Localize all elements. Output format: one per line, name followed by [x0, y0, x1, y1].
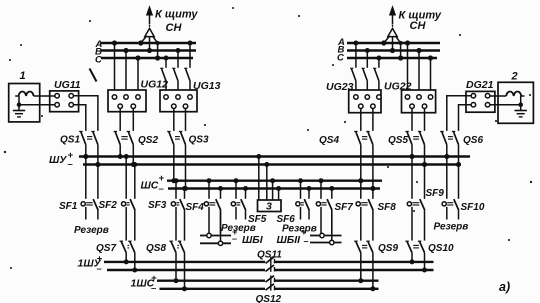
charger unit 3 [258, 200, 282, 213]
label Резерв under SF10 [434, 222, 469, 233]
busbar A (left) [101, 42, 196, 45]
breaker SF5 (reserve) [231, 179, 247, 220]
breaker SF2 [122, 155, 137, 241]
switch QS9 [354, 241, 375, 291]
wire box1 to UG11 (upper) [34, 95, 55, 97]
label 1ШС [131, 273, 158, 294]
label Резерв under SF5 [221, 223, 256, 234]
label ШС [141, 173, 165, 195]
ground in box 2 [515, 96, 527, 117]
svg-text:SF2: SF2 [99, 200, 118, 211]
battery bus ШБII wires [310, 236, 342, 243]
switch QS2 [114, 108, 136, 166]
drop busbar A to UG22 [405, 41, 409, 90]
switch QS5 [405, 108, 426, 166]
switch QS10 [405, 241, 426, 272]
winding inside box 1 [15, 91, 33, 96]
breaker SF3 [171, 179, 186, 241]
bus ШУ minus [83, 163, 460, 165]
svg-text:–: – [304, 236, 309, 246]
label К щиту СН (left) [155, 9, 198, 35]
label UG12 [141, 79, 169, 91]
wire UG21 to box 2 (lower) [490, 104, 521, 106]
svg-text:UG22: UG22 [384, 81, 412, 93]
wire UG21 to QS6 left pole [447, 96, 472, 131]
svg-text:–: – [68, 159, 74, 170]
label Резерв under SF6 [282, 224, 317, 235]
feeder arrow to switchboard SN (left) [139, 7, 160, 60]
label QS3 [189, 135, 209, 146]
label SF1 [59, 201, 78, 212]
feed ШС+ to unit 3 [271, 179, 275, 200]
svg-text:3: 3 [266, 201, 272, 213]
label QS5 [388, 135, 408, 146]
switch QS8 [169, 241, 186, 291]
label QS4 [319, 135, 339, 146]
label SF7 [335, 202, 354, 213]
rectifier UG11 [50, 91, 79, 112]
svg-text:QS11: QS11 [257, 250, 282, 261]
label SF5 [248, 214, 267, 225]
svg-text:QS10: QS10 [428, 243, 454, 254]
sectionalizer QS12 [266, 276, 275, 291]
label QS10 [428, 243, 454, 254]
rectifier UG22 [402, 90, 436, 113]
bus 1ШУ minus (left segment) [107, 269, 265, 271]
disconnect busbar C to UG13 [160, 56, 168, 90]
svg-text:–: – [232, 234, 237, 244]
label К щиту СН (right) [399, 10, 442, 33]
wire UG21 to QS6 right pole [459, 105, 472, 131]
svg-text:SF7: SF7 [335, 202, 354, 213]
svg-text:ШБI: ШБI [242, 234, 264, 246]
label Резерв under SF1 [74, 225, 109, 236]
label SF2 [99, 200, 118, 211]
svg-text:–: – [97, 264, 103, 275]
bus ШС plus [167, 179, 382, 181]
svg-text:1: 1 [20, 70, 26, 82]
svg-text:UG11: UG11 [54, 79, 81, 91]
svg-text:QS9: QS9 [378, 243, 398, 254]
breaker SF4 (battery I feed) [204, 179, 222, 242]
svg-text:UG12: UG12 [141, 79, 169, 91]
bus 1ШС minus (right segment) [275, 288, 379, 290]
svg-text:DG21: DG21 [466, 79, 494, 91]
breaker SF8 [356, 179, 375, 241]
phase labels A B C (right) [337, 37, 345, 64]
svg-text:UG13: UG13 [193, 80, 221, 92]
stray mark [90, 69, 97, 82]
figure label а) [499, 280, 510, 294]
rectifier UG21 [466, 91, 495, 112]
svg-text:QS3: QS3 [189, 135, 209, 146]
label UG11 [54, 79, 81, 91]
svg-text:SF8: SF8 [378, 202, 397, 213]
svg-text:QS4: QS4 [319, 135, 339, 146]
svg-text:Резерв: Резерв [434, 222, 469, 233]
svg-text:QS8: QS8 [146, 243, 166, 254]
svg-text:SF9: SF9 [426, 188, 445, 199]
svg-text:QS5: QS5 [388, 135, 408, 146]
label QS2 [138, 135, 158, 146]
svg-text:СН: СН [410, 20, 427, 32]
label SF3 [148, 200, 167, 211]
svg-text:QS12: QS12 [256, 294, 282, 303]
label QS12 [256, 294, 282, 303]
phase labels A B C (left) [95, 39, 103, 66]
label QS1 [60, 135, 80, 146]
bus 1ШС plus (right segment) [275, 280, 379, 282]
svg-text:ШБII: ШБII [277, 234, 302, 246]
svg-text:QS6: QS6 [463, 135, 483, 146]
label ШБI [232, 227, 264, 246]
rectifier UG12 [108, 90, 146, 112]
svg-text:Резерв: Резерв [282, 224, 317, 235]
bus 1ШУ plus (left segment) [104, 261, 265, 263]
disconnect busbar C to UG23 [373, 56, 381, 90]
sectionalizer QS11 [266, 257, 275, 272]
breaker SF10 (reserve) [442, 155, 460, 220]
svg-text:а): а) [499, 280, 510, 294]
svg-text:–: – [159, 184, 165, 195]
plug contacts ШБII [320, 233, 334, 244]
bus 1ШС minus (left segment) [160, 288, 266, 290]
bus 1ШУ plus (right segment) [275, 261, 434, 263]
wire UG11 to QS1 right pole [73, 96, 98, 131]
label UG22 [384, 81, 412, 93]
svg-text:К щиту: К щиту [155, 9, 198, 21]
label SF6 [277, 214, 296, 225]
label UG21 [466, 79, 494, 91]
drop busbar A to UG12 [112, 41, 116, 90]
feeder arrow to switchboard SN (right) [382, 7, 403, 60]
drop busbar B to UG12 [124, 48, 128, 90]
svg-text:+: + [159, 173, 165, 184]
svg-text:SF4: SF4 [186, 202, 205, 213]
busbar C (right) [347, 57, 437, 60]
label QS7 [96, 243, 116, 254]
svg-text:SF10: SF10 [461, 202, 485, 213]
disconnect busbar B to UG23 [362, 49, 370, 91]
svg-text:QS7: QS7 [96, 243, 116, 254]
svg-text:C: C [95, 55, 102, 66]
rectifier UG23 [349, 90, 381, 113]
switch QS6 [440, 132, 460, 167]
svg-text:UG23: UG23 [326, 81, 354, 93]
svg-text:ШУ: ШУ [49, 154, 67, 166]
label SF10 [461, 202, 485, 213]
bus 1ШУ minus (right segment) [275, 269, 434, 271]
breaker SF7 (battery II feed) [316, 179, 334, 241]
switch QS4 [354, 108, 375, 190]
drop busbar C to UG12 [136, 56, 140, 90]
disconnect busbar A to UG23 [350, 41, 358, 90]
feed ШУ+ to unit 3 [257, 155, 261, 201]
label SF4 [186, 202, 205, 213]
label 1ШУ [78, 254, 103, 275]
label ШУ [49, 150, 74, 170]
feed ШУ- to unit 3 [265, 163, 269, 201]
wire box1 to UG11 (lower) [19, 104, 55, 106]
breaker SF6 (reserve) [296, 179, 311, 220]
svg-text:2: 2 [511, 71, 518, 83]
svg-text:C: C [337, 53, 344, 64]
label QS6 [463, 135, 483, 146]
wire UG11 to QS1 left pole [73, 105, 86, 131]
svg-text:QS1: QS1 [60, 135, 80, 146]
bus ШС minus [168, 187, 380, 189]
svg-text:Резерв: Резерв [221, 223, 256, 234]
plug contacts ШБI [207, 233, 223, 245]
label SF9 [426, 188, 445, 199]
drop busbar C to UG22 [428, 56, 432, 90]
feed ШС- to unit 3 [277, 187, 281, 201]
breaker SF1 (reserve feeder) [81, 155, 100, 220]
busbar C (left) [101, 57, 193, 60]
svg-text:SF1: SF1 [59, 201, 78, 212]
svg-text:Резерв: Резерв [74, 225, 109, 236]
rectifier UG13 [160, 90, 197, 112]
label SF8 [378, 202, 397, 213]
wire UG21 to box 2 (upper) [490, 95, 507, 97]
battery bus ШБI wires [200, 236, 231, 244]
winding inside box 2 [506, 91, 524, 96]
label ШБII [277, 227, 309, 246]
svg-text:СН: СН [166, 22, 183, 34]
busbar B (left) [101, 49, 196, 52]
label UG23 [326, 81, 354, 93]
switch QS1 [79, 132, 100, 167]
label UG13 [193, 80, 221, 92]
label QS8 [146, 243, 166, 254]
svg-text:QS2: QS2 [138, 135, 158, 146]
svg-text:–: – [151, 283, 157, 294]
busbar A (right) [347, 42, 440, 45]
disconnect busbar B to UG13 [172, 49, 180, 91]
label QS9 [378, 243, 398, 254]
svg-text:SF3: SF3 [148, 200, 167, 211]
breaker SF9 [407, 155, 426, 241]
label QS11 [257, 250, 282, 261]
drop busbar B to UG22 [417, 48, 421, 90]
transformer box 1 [9, 70, 40, 122]
bus 1ШС plus (left segment) [157, 280, 265, 282]
bus ШУ plus [79, 155, 470, 157]
transformer box 2 [498, 71, 533, 124]
switch QS3 [167, 108, 187, 190]
disconnect busbar A to UG13 [184, 41, 192, 90]
switch QS7 [120, 241, 137, 272]
busbar B (right) [347, 49, 440, 52]
ground in box 1 [13, 96, 25, 117]
svg-text:ШС: ШС [141, 180, 159, 192]
